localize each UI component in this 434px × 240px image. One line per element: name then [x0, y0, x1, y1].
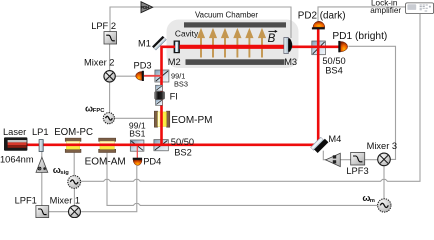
svg-text:BS2: BS2	[174, 147, 192, 157]
wire: PD1 to mixer 3	[349, 46, 396, 159]
laser beam: M3 transmission to BS4 and PD1	[292, 45, 339, 48]
svg-text:PD1 (bright): PD1 (bright)	[332, 31, 387, 42]
svg-text:M2: M2	[168, 57, 181, 67]
svg-text:BS3: BS3	[174, 79, 188, 88]
photodiode PD2 (dark port)	[312, 21, 325, 29]
laser beam: BS4 up to PD2	[317, 29, 320, 47]
photodiode PD4	[133, 158, 142, 166]
svg-text:PD4: PD4	[143, 157, 161, 167]
beam splitter cube BS4	[312, 41, 326, 55]
wire: LP1 to servo triangle	[41, 151, 43, 157]
wire: lock-in reference from oscillator omega-sig	[80, 14, 420, 182]
photodiode PD1 (bright port)	[338, 41, 347, 52]
beam splitter cube BS3	[155, 70, 169, 82]
low-pass filter LPF3	[351, 152, 365, 165]
photodiode PD3	[136, 71, 144, 81]
amplifier triangle to M4 piezo	[326, 153, 341, 166]
servo amplifier triangle (laser power)	[36, 157, 48, 172]
laser beam: BS3 to PD3	[144, 75, 162, 77]
wire: mixer 1 to LPF1	[49, 211, 69, 213]
Faraday isolator FI polarizer bottom	[156, 100, 163, 106]
magnet coil bar top	[184, 22, 286, 27]
svg-text:PD3: PD3	[134, 60, 152, 70]
low-pass filter LPF2	[104, 32, 117, 44]
wire: oscillator omega-FPC to EOM-PM	[115, 117, 155, 119]
beam splitter cube BS1	[130, 140, 144, 151]
svg-text:Cavity: Cavity	[175, 29, 199, 39]
svg-text:50/50: 50/50	[171, 137, 194, 147]
svg-text:LPF1: LPF1	[15, 196, 37, 206]
vacuum chamber enclosure	[167, 20, 299, 69]
laser beam: BS4 down to M4	[317, 47, 320, 143]
svg-text:M3: M3	[284, 57, 297, 67]
Faraday isolator FI polarizer top	[156, 85, 163, 91]
oscillator omega-sig	[68, 176, 81, 189]
svg-text:Mixer 3: Mixer 3	[367, 141, 397, 151]
steering mirror M1	[152, 36, 166, 50]
svg-text:EOM-PC: EOM-PC	[54, 127, 93, 138]
svg-text:EOM-AM: EOM-AM	[85, 157, 126, 168]
laser head 1064nm	[4, 137, 27, 150]
wire: oscillator omega-sig to EOM-PC	[73, 153, 75, 176]
mixer 3	[378, 153, 391, 166]
laser beam: BS2 up through EOM-PM, FI, BS3 to M1 then right to cavity	[162, 47, 176, 146]
svg-text:LPF 2: LPF 2	[91, 21, 116, 31]
wire: mixer 2 to PD3	[115, 75, 137, 77]
cavity mirror M2	[174, 41, 180, 54]
half-wave plate LP1	[39, 140, 43, 152]
wire: M4 piezo to amplifier	[323, 151, 326, 160]
EOM-PM electro-optic modulator	[154, 111, 170, 127]
wire: oscillator omega-sig to mixer 1 LO	[73, 188, 75, 205]
svg-text:50/50: 50/50	[322, 56, 345, 66]
svg-text:PDH: PDH	[141, 5, 149, 10]
svg-text:FPC: FPC	[93, 108, 105, 114]
magnet coil bar bottom	[186, 59, 285, 65]
svg-text:M4: M4	[328, 134, 341, 144]
svg-text:FI: FI	[170, 92, 178, 102]
wire: amplifier to LPF3	[340, 159, 351, 161]
EOM-AM electro-optic modulator	[99, 138, 116, 152]
laser beam: intracavity thick beam M2 to M3	[180, 45, 285, 49]
wire: LPF3 to mixer 3	[365, 159, 378, 161]
svg-text:amplifier: amplifier	[370, 6, 401, 15]
svg-text:m: m	[370, 198, 375, 204]
svg-text:LP1: LP1	[32, 127, 49, 137]
cavity mirror M3	[284, 37, 292, 53]
wire: servo triangle to LPF1	[41, 173, 43, 206]
beam splitter cube BS2	[154, 140, 168, 151]
svg-text:LPF3: LPF3	[346, 166, 368, 176]
svg-text:B: B	[268, 33, 276, 45]
wire: oscillator omega-FPC to mixer 2 LO	[109, 82, 111, 113]
mixer 2	[104, 71, 115, 82]
svg-text:BS4: BS4	[325, 66, 343, 76]
oscillator omega-FPC	[103, 113, 114, 124]
svg-text:PD2 (dark): PD2 (dark)	[298, 10, 346, 21]
svg-text:EOM-PM: EOM-PM	[171, 115, 212, 126]
magnetic field arrows	[198, 30, 264, 57]
svg-text:M1: M1	[138, 39, 151, 49]
PDH servo amplifier triangle	[141, 2, 153, 13]
laser beam: BS1 down to PD4 (weak)	[136, 146, 138, 158]
wire: mixer 2 to LPF2	[109, 44, 111, 71]
svg-text:Laser: Laser	[3, 127, 26, 137]
steering mirror M4 with piezo	[311, 136, 329, 154]
wire: mixer 3 LO from oscillator omega-m	[383, 166, 385, 199]
EOM-PC electro-optic modulator	[65, 138, 81, 152]
svg-text:Mixer 1: Mixer 1	[50, 196, 80, 206]
wire: PDH servo loop LPF2 to M3 piezo	[110, 7, 291, 38]
lock-in amplifier instrument	[406, 3, 434, 14]
svg-text:1064nm: 1064nm	[0, 155, 34, 165]
svg-text:sig: sig	[60, 170, 69, 176]
oscillator omega-m	[378, 199, 391, 212]
svg-text:Mixer 2: Mixer 2	[84, 57, 114, 67]
low-pass filter LPF1	[36, 206, 49, 218]
wire: PD4 to mixer 1	[81, 166, 137, 212]
svg-text:Vacuum Chamber: Vacuum Chamber	[195, 10, 258, 19]
laser beam: main horizontal from laser to M4	[27, 144, 317, 147]
label B field vector	[268, 30, 278, 45]
mixer 1	[69, 206, 81, 218]
wire: oscillator omega-m to EOM-AM	[107, 153, 378, 206]
Faraday isolator FI rotator cylinder	[155, 92, 165, 100]
wire: PD2 to lock-in amplifier	[318, 7, 406, 22]
svg-text:BS1: BS1	[129, 128, 145, 138]
